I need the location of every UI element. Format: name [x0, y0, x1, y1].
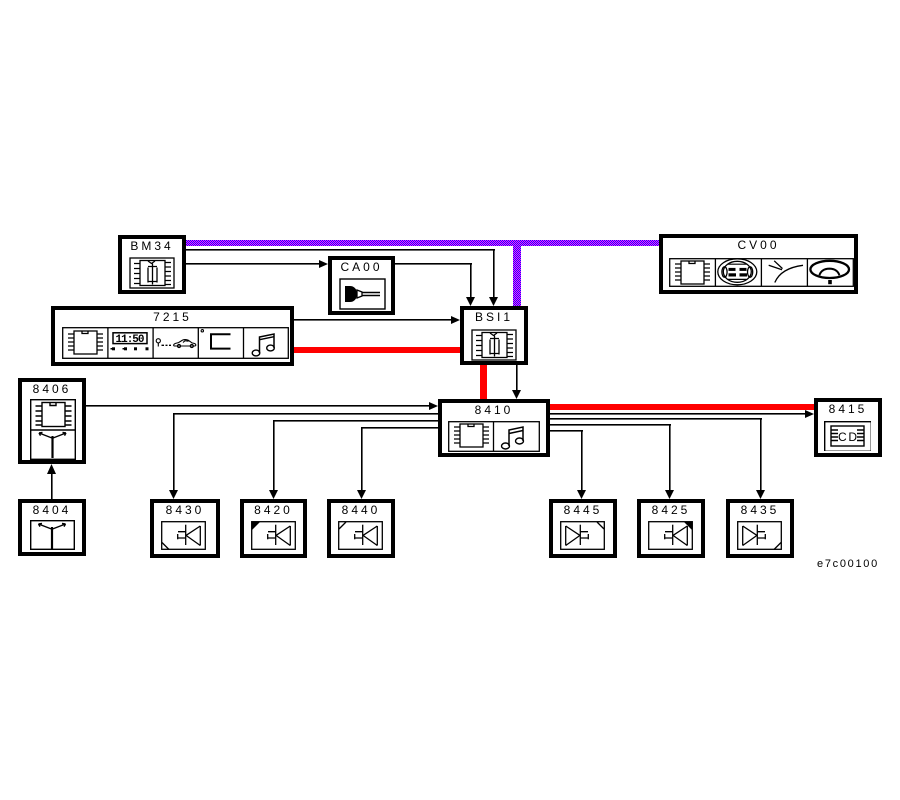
svg-text:CD: CD	[838, 430, 857, 444]
svg-text:11:50: 11:50	[116, 334, 145, 346]
